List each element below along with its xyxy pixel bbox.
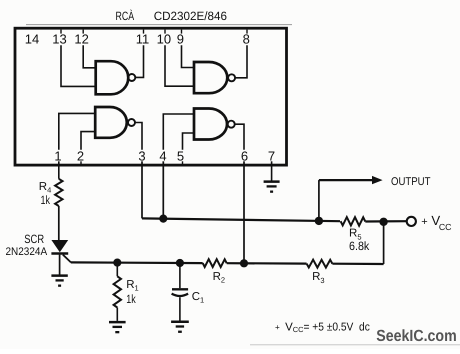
svg-text:12: 12	[74, 32, 88, 47]
svg-text:6.8k: 6.8k	[349, 239, 370, 253]
svg-text:2N2324A: 2N2324A	[6, 246, 48, 258]
svg-text:9: 9	[177, 32, 184, 47]
svg-text:CD2302E/846: CD2302E/846	[154, 9, 228, 23]
svg-text:SeekIC.com: SeekIC.com	[376, 327, 456, 345]
svg-text:RCÀ: RCÀ	[116, 9, 135, 23]
svg-text:6: 6	[241, 148, 248, 163]
svg-text:OUTPUT: OUTPUT	[391, 176, 431, 188]
svg-text:7: 7	[268, 148, 275, 163]
svg-text:1k: 1k	[41, 193, 51, 207]
svg-text:2: 2	[77, 148, 84, 163]
svg-text:5: 5	[177, 148, 184, 163]
svg-text:8: 8	[243, 32, 250, 47]
svg-text:4: 4	[159, 148, 166, 163]
svg-text:SCR: SCR	[24, 232, 44, 246]
svg-text:14: 14	[25, 32, 39, 47]
svg-text:11: 11	[136, 32, 150, 47]
svg-text:1: 1	[54, 148, 61, 163]
svg-text:10: 10	[157, 32, 171, 47]
svg-text:13: 13	[52, 32, 66, 47]
svg-text:+VCC= +5 ±0.5V dc: +VCC= +5 ±0.5V dc	[275, 322, 370, 334]
svg-text:3: 3	[138, 148, 145, 163]
svg-text:1k: 1k	[126, 292, 136, 306]
